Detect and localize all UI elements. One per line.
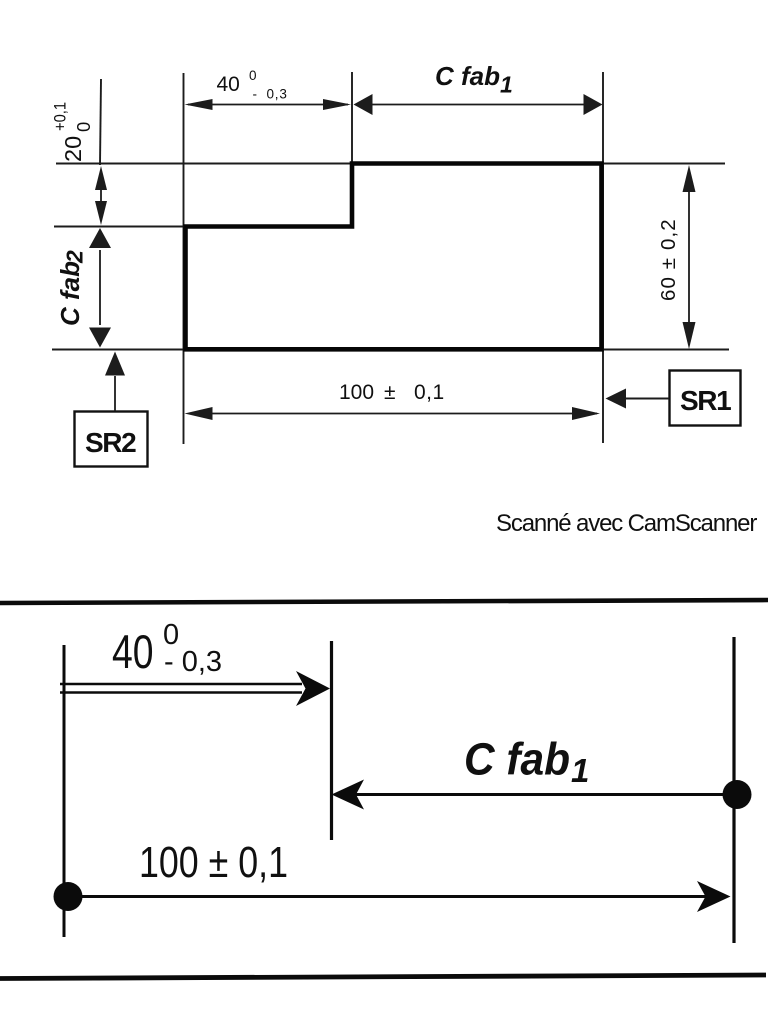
svg-text:0: 0 xyxy=(73,122,94,132)
svg-text:+0,1: +0,1 xyxy=(51,102,70,131)
svg-text:0,1: 0,1 xyxy=(414,381,445,404)
svg-text:Scanné avec CamScanner: Scanné avec CamScanner xyxy=(496,510,757,537)
svg-text:-: - xyxy=(253,87,258,102)
svg-text:0: 0 xyxy=(249,68,257,83)
svg-text:SR1: SR1 xyxy=(680,385,731,416)
svg-text:2: 2 xyxy=(62,250,88,264)
svg-text:- 0,3: - 0,3 xyxy=(164,646,222,678)
svg-text:C fab: C fab xyxy=(55,261,85,326)
svg-text:±: ± xyxy=(384,381,396,404)
svg-text:1: 1 xyxy=(571,752,589,789)
svg-text:100 ± 0,1: 100 ± 0,1 xyxy=(139,838,288,887)
svg-text:1: 1 xyxy=(500,72,513,98)
svg-text:C fab: C fab xyxy=(435,61,500,91)
svg-text:SR2: SR2 xyxy=(85,427,136,458)
svg-text:40: 40 xyxy=(217,73,240,96)
svg-text:0,3: 0,3 xyxy=(267,87,288,102)
svg-text:20: 20 xyxy=(60,136,86,162)
svg-text:C fab: C fab xyxy=(464,734,570,785)
svg-text:40: 40 xyxy=(112,625,154,678)
svg-text:100: 100 xyxy=(339,381,374,404)
svg-text:60 ± 0,2: 60 ± 0,2 xyxy=(657,218,680,301)
